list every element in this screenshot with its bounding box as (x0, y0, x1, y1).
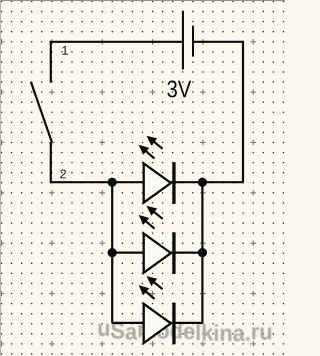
LED light arrow upper (147, 206, 158, 216)
wire: left LED column vertical (111, 182, 113, 323)
wire: switch bottom down to row1 then right (51, 142, 243, 182)
wire: right LED column vertical (201, 182, 203, 323)
battery value 3V (167, 80, 191, 97)
switch S1 blade (31, 82, 52, 142)
wire: battery right to right rail down to row1 (194, 42, 243, 182)
LED light arrow lower (139, 215, 150, 225)
junction node row1 left (108, 178, 117, 187)
watermark uSamodelkina.ru (99, 322, 272, 341)
LED light arrow upper (147, 136, 158, 146)
LED cathode bar (172, 232, 175, 274)
LED cathode bar (172, 162, 175, 204)
LED D1 (139, 136, 176, 204)
LED triangle (anode) (144, 163, 171, 202)
node label 1 (62, 46, 67, 55)
battery BT1 short plate (192, 26, 194, 57)
junction node row1 right (198, 178, 207, 187)
LED light arrow lower (139, 285, 150, 295)
LED cathode bar (172, 303, 175, 345)
battery BT1 long plate (182, 11, 184, 70)
junction node row2 right (198, 248, 207, 257)
LED triangle (anode) (144, 234, 171, 273)
wire: battery left to top-left corner to switch top contact (51, 42, 182, 83)
junction node row2 left (108, 248, 117, 257)
wire: row2 horizontal (112, 252, 202, 254)
LED triangle (anode) (144, 304, 171, 343)
LED light arrow upper (147, 276, 158, 286)
node label 2 (60, 170, 66, 179)
LED light arrow lower (139, 145, 150, 155)
LED D3 (139, 276, 176, 344)
LED D2 (139, 206, 176, 274)
wire: row3 horizontal (112, 322, 202, 324)
